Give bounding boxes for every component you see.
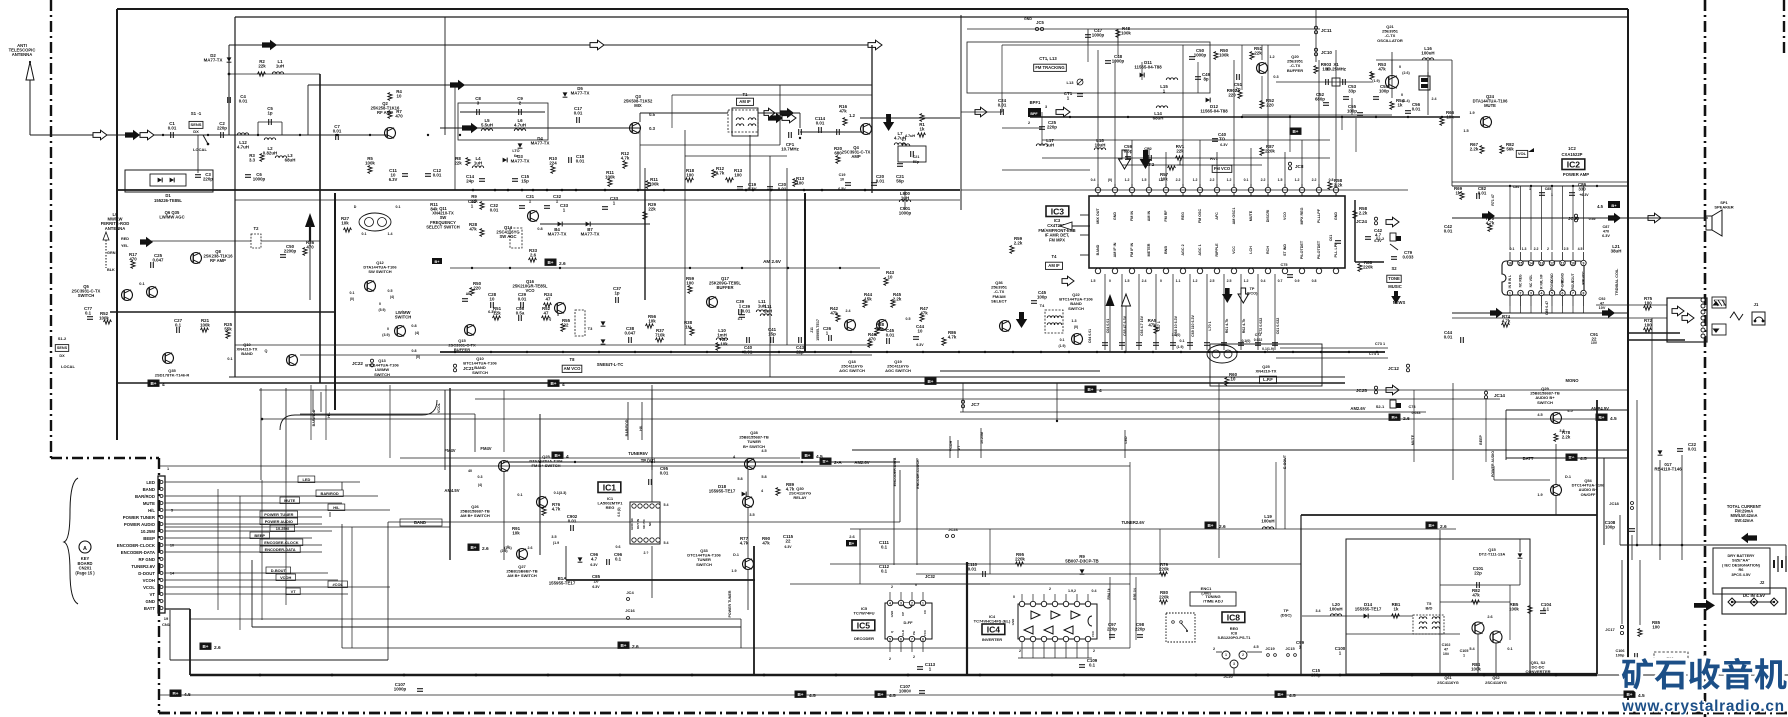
- svg-text:ON/OFF: ON/OFF: [1581, 492, 1596, 497]
- svg-text:R61 4.7k: R61 4.7k: [1225, 319, 1229, 334]
- svg-text:155226-TE85L: 155226-TE85L: [154, 198, 182, 203]
- Q20 wires: [1261, 45, 1263, 60]
- svg-text:YEL: YEL: [121, 244, 129, 248]
- transistor Q20 buffer: [1257, 63, 1268, 74]
- svg-text:CLR: CLR: [901, 629, 905, 636]
- B+ 4.5 row: [170, 690, 181, 696]
- speaker feed wire: [1452, 217, 1708, 219]
- svg-text:1.2: 1.2: [1295, 178, 1300, 182]
- resistor R27: [344, 228, 352, 232]
- svg-text:10k: 10k: [341, 221, 349, 226]
- C52: [1323, 102, 1329, 104]
- svg-text:56k: 56k: [1506, 147, 1514, 152]
- IC3 pin top PLLLPF: [1318, 184, 1320, 196]
- B+ osc: [1419, 76, 1430, 90]
- svg-text:155355-TE17: 155355-TE17: [1355, 607, 1382, 612]
- IC3 pin top DISCRI: [1267, 184, 1269, 196]
- page border dash-dot top right corner: [1783, 0, 1785, 56]
- svg-text:2.6: 2.6: [849, 534, 855, 539]
- svg-text:2: 2: [889, 657, 891, 661]
- svg-text:4.5: 4.5: [761, 449, 766, 453]
- R74: [1502, 323, 1510, 327]
- svg-text:JC10: JC10: [1321, 50, 1332, 55]
- resistor R25: [226, 331, 230, 339]
- svg-text:470: 470: [868, 337, 876, 342]
- svg-text:S1 -1: S1 -1: [191, 111, 202, 116]
- svg-text:INVERTER: INVERTER: [982, 637, 1002, 642]
- svg-text:PILOTDET: PILOTDET: [1300, 240, 1304, 259]
- svg-text:4: 4: [1541, 292, 1543, 296]
- svg-text:ST IND: ST IND: [1283, 244, 1287, 256]
- resistor R22 C29 R24: [462, 298, 468, 300]
- svg-text:0.01: 0.01: [886, 333, 895, 338]
- svg-text:JC24: JC24: [1356, 219, 1367, 224]
- svg-text:REG: REG: [1519, 274, 1523, 282]
- IC3 pin bottom FM IF IN: [1129, 268, 1134, 273]
- svg-text:5: 5: [889, 638, 891, 642]
- Q23 transistor: [1072, 334, 1083, 345]
- svg-text:55k: 55k: [224, 327, 232, 332]
- resistor R48: [1116, 30, 1120, 38]
- svg-text:11565-04-T88: 11565-04-T88: [1134, 65, 1162, 70]
- svg-text:0.1: 0.1: [615, 557, 622, 562]
- svg-text:FM B+ SWITCH: FM B+ SWITCH: [532, 463, 561, 468]
- svg-text:2.6: 2.6: [528, 546, 533, 550]
- IC2 power amp DIP outline: [1502, 261, 1584, 295]
- bottom verticals: [859, 529, 861, 584]
- wire y85 to mixer: [308, 84, 872, 86]
- svg-text:S2-2: S2-2: [1376, 236, 1385, 241]
- IC2 pin 12: [1549, 260, 1554, 265]
- svg-text:11565-04-T88: 11565-04-T88: [1200, 109, 1228, 114]
- diode D3: [503, 158, 507, 163]
- svg-text:REG: REG: [1181, 212, 1185, 220]
- keyboard pin ENCODER-DATA: [160, 551, 163, 554]
- transistor Q5 switch: [122, 290, 133, 301]
- svg-text:REG: REG: [606, 505, 615, 510]
- IC3 pin top GND: [1335, 184, 1337, 196]
- svg-text:PLL LPF: PLL LPF: [1334, 242, 1338, 258]
- IC3 pin top FM OSC: [1199, 184, 1201, 196]
- svg-text:PE: PE: [912, 631, 916, 635]
- svg-text:B+: B+: [150, 381, 156, 386]
- svg-text:MA77-TX: MA77-TX: [531, 141, 550, 146]
- svg-text:NC: NC: [1519, 282, 1523, 287]
- JC21: [453, 364, 456, 367]
- jack zigzag: [1730, 312, 1743, 320]
- svg-text:TUNER2.6V: TUNER2.6V: [1121, 520, 1144, 525]
- svg-text:ANTENNA: ANTENNA: [12, 52, 32, 57]
- svg-text:PILOTDET: PILOTDET: [1317, 240, 1321, 259]
- resistor R21 C27: [176, 327, 178, 333]
- svg-text:(Page 15 ): (Page 15 ): [75, 570, 95, 575]
- svg-text:BAND: BAND: [241, 351, 253, 356]
- svg-text:2.6: 2.6: [214, 645, 221, 651]
- svg-text:GRN: GRN: [107, 251, 116, 255]
- wires bottom center: [503, 472, 505, 560]
- svg-text:100k: 100k: [365, 161, 375, 166]
- svg-text:0: 0: [1401, 93, 1403, 97]
- arrow ferrite: [140, 237, 153, 247]
- keyboard pin POWER AUDIO: [160, 523, 163, 526]
- svg-text:0.82uH: 0.82uH: [263, 151, 277, 156]
- svg-text:4.5: 4.5: [1610, 416, 1617, 422]
- capacitor C77 R27: [87, 316, 93, 318]
- svg-text:6: 6: [900, 638, 902, 642]
- Q54 audio on/off: [1551, 485, 1562, 496]
- svg-text:0.01: 0.01: [1444, 229, 1453, 234]
- svg-text:B+: B+: [877, 692, 883, 697]
- svg-text:TRDIBAL COIL: TRDIBAL COIL: [1615, 268, 1619, 295]
- keyboard pin BAR/ROD: [160, 495, 163, 498]
- svg-text:100k: 100k: [1121, 31, 1131, 36]
- svg-text:TONE: TONE: [1388, 276, 1400, 281]
- svg-text:BUFFER: BUFFER: [717, 285, 734, 290]
- svg-text:0.1: 0.1: [1507, 647, 1512, 651]
- DC-DC inner box: [1346, 539, 1530, 674]
- svg-text:4.7k: 4.7k: [1502, 319, 1511, 324]
- svg-text:www.crystalradio.cn: www.crystalradio.cn: [1621, 698, 1784, 715]
- svg-text:MA77-TX: MA77-TX: [204, 58, 223, 63]
- capacitor C48: [1105, 60, 1111, 62]
- plug arrow: [1694, 600, 1715, 611]
- IC3 pin bottom PLL LPF: [1333, 268, 1338, 273]
- IC3 pin top AM IN: [1148, 184, 1150, 196]
- svg-text:VCOL: VCOL: [437, 402, 441, 413]
- svg-text:1uH: 1uH: [1046, 143, 1054, 148]
- svg-text:1: 1: [1509, 292, 1511, 296]
- svg-text:0.4: 0.4: [1091, 178, 1096, 182]
- svg-text:0.5: 0.5: [906, 317, 911, 321]
- svg-text:47k: 47k: [1378, 67, 1386, 72]
- svg-text:680p: 680p: [1315, 97, 1325, 102]
- bottom of FM box verticals: [1001, 45, 1003, 112]
- FM VCO boxed: [1212, 165, 1232, 172]
- svg-text:VCOH: VCOH: [143, 578, 155, 583]
- JC24 arrow: [1374, 217, 1377, 220]
- svg-text:1: 1: [1463, 654, 1465, 658]
- resistor R50: [1214, 52, 1218, 60]
- svg-text:0.047: 0.047: [153, 258, 165, 263]
- svg-text:7: 7: [1572, 292, 1574, 296]
- svg-text:RED: RED: [121, 237, 129, 241]
- resistor R4: [388, 93, 392, 101]
- svg-text:RF AMP: RF AMP: [210, 258, 226, 263]
- svg-text:AM2.6V: AM2.6V: [854, 460, 869, 465]
- svg-text:4.7k: 4.7k: [552, 507, 561, 512]
- svg-text:12: 12: [1550, 262, 1554, 266]
- crystal X1: [1332, 78, 1340, 86]
- svg-text:100k: 100k: [99, 316, 109, 321]
- svg-text:0.01: 0.01: [968, 567, 977, 572]
- svg-text:2.6: 2.6: [1219, 524, 1226, 530]
- svg-text:(0): (0): [1074, 325, 1078, 329]
- svg-text:C67 1: C67 1: [1157, 321, 1161, 331]
- svg-text:10k: 10k: [648, 319, 656, 324]
- IC3 pin bottom BAND: [1095, 268, 1100, 273]
- svg-text:FM IF IN: FM IF IN: [1130, 242, 1134, 257]
- wire antenna to frame: [30, 134, 117, 136]
- arrows after T1: [764, 108, 775, 118]
- page border dash-dot jog: [51, 457, 159, 459]
- JC11 JC10: [1314, 26, 1317, 29]
- svg-text:B/D: B/D: [1426, 606, 1433, 611]
- svg-text:NC NC: NC NC: [642, 518, 646, 528]
- Q25 FM B+ switch: [499, 461, 510, 472]
- svg-text:155955-TE17: 155955-TE17: [709, 489, 736, 494]
- svg-text:5.4: 5.4: [664, 541, 669, 545]
- svg-text:1.2(0): 1.2(0): [1172, 333, 1181, 337]
- IC2 pin 16: [1507, 260, 1512, 265]
- svg-text:1.1: 1.1: [1176, 279, 1181, 283]
- svg-text:BUFFER: BUFFER: [1287, 68, 1303, 73]
- svg-text:DC IN 4.5V: DC IN 4.5V: [1743, 593, 1765, 598]
- svg-text:AGC 2: AGC 2: [1181, 244, 1185, 255]
- svg-text:(3.9): (3.9): [382, 333, 390, 337]
- svg-text:4.5: 4.5: [1253, 645, 1258, 649]
- svg-text:19: 19: [164, 616, 169, 621]
- svg-text:10V: 10V: [1591, 341, 1598, 345]
- IC2 pin 14: [1528, 260, 1533, 265]
- svg-text:100k: 100k: [649, 182, 659, 187]
- vertical bus wires center: [651, 385, 653, 462]
- keyboard pin VCOH: [160, 579, 163, 582]
- svg-text:2.6: 2.6: [482, 546, 489, 552]
- svg-text:4.5: 4.5: [1578, 247, 1583, 251]
- svg-text:5: 5: [557, 313, 559, 317]
- capacitor C7: [335, 134, 337, 140]
- svg-text:POWER TUNER: POWER TUNER: [728, 590, 732, 617]
- svg-text:GND: GND: [1113, 212, 1117, 221]
- svg-text:(VCO): (VCO): [1247, 292, 1258, 296]
- capacitor C65: [1121, 274, 1123, 350]
- svg-text:D.1: D.1: [733, 553, 739, 557]
- svg-text:T3: T3: [588, 326, 593, 331]
- IC2 pin 1: [1507, 290, 1512, 295]
- svg-text:0.01: 0.01: [333, 129, 342, 134]
- svg-text:224: 224: [549, 161, 557, 166]
- svg-text:7: 7: [911, 638, 913, 642]
- svg-text:1N: 1N: [685, 325, 691, 330]
- arrow y85: [450, 80, 465, 90]
- svg-text:220p: 220p: [1047, 125, 1057, 130]
- svg-text:10: 10: [840, 178, 844, 182]
- B16 dashed: [1654, 652, 1688, 664]
- svg-text:ENCODER-CLOCK: ENCODER-CLOCK: [117, 543, 156, 548]
- svg-text:METER: METER: [1147, 243, 1151, 256]
- headphone symbol: [1752, 312, 1765, 325]
- junction dots rail 135: [136, 134, 138, 136]
- svg-text:DISCRI: DISCRI: [1266, 210, 1270, 223]
- svg-text:RIPPLE: RIPPLE: [1215, 243, 1219, 257]
- A circle: [79, 541, 91, 553]
- svg-text:8: 8: [1583, 292, 1585, 296]
- svg-text:B+: B+: [620, 643, 626, 648]
- junction dots rail 675: [259, 674, 262, 677]
- resistor R16: [843, 118, 847, 126]
- capacitor C19 C20: [737, 186, 743, 188]
- battery symbol: [1773, 560, 1775, 568]
- svg-text:IN R: IN R: [1508, 281, 1512, 288]
- svg-text:R94 1k: R94 1k: [1107, 588, 1111, 599]
- svg-text:SPEAKER: SPEAKER: [1714, 205, 1733, 210]
- svg-text:5: 5: [1551, 292, 1553, 296]
- svg-text:10V: 10V: [1599, 306, 1606, 310]
- svg-text:B+: B+: [202, 644, 208, 649]
- svg-text:15k: 15k: [864, 297, 872, 302]
- svg-text:0.7: 0.7: [1278, 279, 1283, 283]
- svg-text:47: 47: [544, 311, 549, 316]
- svg-text:GND NC: GND NC: [630, 517, 634, 530]
- svg-text:6.3V: 6.3V: [916, 343, 924, 347]
- svg-text:VCC: VCC: [1091, 630, 1095, 637]
- Q27 AM B+ switch 2: [517, 549, 528, 560]
- svg-text:1.2: 1.2: [1125, 178, 1130, 182]
- IC8 regulator: [1222, 651, 1230, 659]
- svg-text:SW SWITCH: SW SWITCH: [368, 269, 391, 274]
- jack hatched plugs: [1712, 297, 1726, 308]
- svg-text:47: 47: [546, 297, 551, 302]
- inductor L2: [264, 138, 275, 140]
- T1 dashed transformer: [728, 110, 758, 132]
- RF section bottom edge: [117, 382, 1345, 384]
- C114 cap: [836, 129, 838, 135]
- svg-text:1: 1: [167, 467, 169, 471]
- svg-text:2: 2: [1242, 653, 1244, 657]
- svg-text:ROUT: ROUT: [1571, 280, 1575, 289]
- svg-text:RCH: RCH: [1266, 246, 1270, 254]
- JC14: [1484, 391, 1487, 394]
- svg-text:100k: 100k: [200, 323, 210, 328]
- capacitor C61: [1274, 274, 1276, 350]
- svg-text:FM TRACKING: FM TRACKING: [1035, 65, 1064, 70]
- svg-text:JC12: JC12: [1388, 366, 1399, 371]
- svg-text:0.1: 0.1: [881, 545, 888, 550]
- page border dash-dot right: [1704, 0, 1707, 717]
- svg-text:33p: 33p: [1348, 89, 1356, 94]
- keyboard pin RF GND: [160, 558, 163, 561]
- svg-text:1.4: 1.4: [388, 232, 393, 236]
- mid bus extra rails: [852, 449, 1628, 451]
- svg-text:3.5: 3.5: [749, 513, 754, 517]
- svg-text:3.4: 3.4: [1316, 609, 1321, 613]
- svg-text:22: 22: [786, 539, 791, 544]
- junction dots IC2 rail: [1509, 185, 1511, 187]
- capacitor L70: [1206, 274, 1208, 350]
- svg-text:47k: 47k: [1472, 593, 1480, 598]
- wire top center: [1002, 44, 1300, 46]
- svg-text:0.5: 0.5: [388, 289, 393, 293]
- capacitor C50b: [1189, 56, 1195, 58]
- C38 R37: [628, 337, 630, 343]
- R78: [1554, 434, 1558, 442]
- svg-text:0.01: 0.01: [876, 179, 885, 184]
- svg-text:B+: B+: [822, 459, 828, 464]
- node junction: [228, 73, 231, 76]
- svg-text:FM IN: FM IN: [1130, 211, 1134, 221]
- svg-text:POWER AMP: POWER AMP: [1563, 172, 1589, 177]
- svg-text:4.7k: 4.7k: [740, 541, 749, 546]
- R75 R72: [1644, 306, 1652, 310]
- Q17 buffer: [707, 297, 718, 308]
- svg-text:4.7uH: 4.7uH: [237, 145, 249, 150]
- svg-text:2.?: 2.?: [644, 551, 649, 555]
- svg-text:100p: 100p: [1616, 654, 1625, 658]
- resistor R17: [131, 261, 135, 269]
- svg-text:0: 0: [1160, 279, 1162, 283]
- svg-text:LCH: LCH: [1249, 246, 1253, 254]
- svg-text:SWITCH: SWITCH: [696, 562, 712, 567]
- svg-text:100p: 100p: [1379, 89, 1389, 94]
- svg-text:AM IF IN: AM IF IN: [1113, 242, 1117, 257]
- C59: [1125, 156, 1131, 158]
- svg-text:JC15: JC15: [1285, 646, 1295, 651]
- Q28 tuner b+ switch: [745, 459, 756, 470]
- svg-text:VOL: VOL: [1529, 275, 1533, 282]
- B+ 2-A AM2.6V label: [820, 458, 831, 464]
- power audio wire: [1493, 466, 1495, 480]
- inner frame line: [235, 16, 1628, 18]
- connector bar CN1: [158, 476, 165, 613]
- svg-text:AM OSC1: AM OSC1: [1232, 208, 1236, 225]
- svg-text:4.7k: 4.7k: [786, 487, 795, 492]
- svg-text:2: 2: [891, 585, 893, 589]
- svg-text:BAR/ROD: BAR/ROD: [321, 491, 339, 496]
- svg-text:1.2: 1.2: [1193, 279, 1198, 283]
- svg-text:4.5: 4.5: [1597, 204, 1603, 209]
- svg-text:47k: 47k: [839, 109, 847, 114]
- svg-text:3: 3: [900, 602, 902, 606]
- svg-text:FM OSC: FM OSC: [1198, 208, 1202, 223]
- svg-text:T2: T2: [254, 226, 260, 231]
- BATT box wires: [1506, 409, 1628, 411]
- wire JC5 bus: [967, 28, 1320, 30]
- svg-text:1: 1: [1225, 653, 1227, 657]
- svg-text:6.3p: 6.3p: [1124, 149, 1133, 154]
- R54 C56: [1390, 102, 1394, 110]
- ellipse Q23 LPF: [1207, 345, 1237, 363]
- svg-text:47k: 47k: [762, 541, 770, 546]
- svg-text:0.6 (0): 0.6 (0): [617, 507, 621, 516]
- long horizontals mid-left: [117, 189, 960, 191]
- IC3 pin bottom AGC 2: [1180, 268, 1185, 273]
- svg-text:C21: C21: [913, 155, 920, 159]
- svg-text:LED: LED: [303, 477, 311, 482]
- svg-text:40: 40: [468, 469, 472, 473]
- svg-text:0.01: 0.01: [1688, 447, 1697, 452]
- wire bus down x645: [644, 190, 646, 300]
- R66: [1440, 118, 1444, 126]
- arrow after T1: [768, 113, 783, 123]
- svg-text:100k: 100k: [1509, 607, 1519, 612]
- svg-text:GND: GND: [1011, 619, 1015, 625]
- heavy line power tuner: [753, 546, 755, 675]
- junction dots rail 268: [471, 267, 473, 269]
- svg-text:10: 10: [1571, 262, 1575, 266]
- svg-text:BPF1: BPF1: [1030, 100, 1041, 105]
- transistor Q35: [163, 353, 174, 364]
- svg-text:J2: J2: [1760, 580, 1765, 585]
- R53 2.2k: [1010, 246, 1014, 254]
- svg-text:4: 4: [1099, 388, 1102, 394]
- main frame: [117, 8, 1628, 10]
- svg-text:+6.3V: +6.3V: [1579, 193, 1589, 197]
- svg-text:C19: C19: [839, 173, 846, 177]
- svg-text:0.01: 0.01: [576, 159, 585, 164]
- svg-text:Q: Q: [265, 349, 268, 353]
- svg-text:10k: 10k: [720, 342, 728, 347]
- svg-text:SWITCH: SWITCH: [374, 372, 390, 377]
